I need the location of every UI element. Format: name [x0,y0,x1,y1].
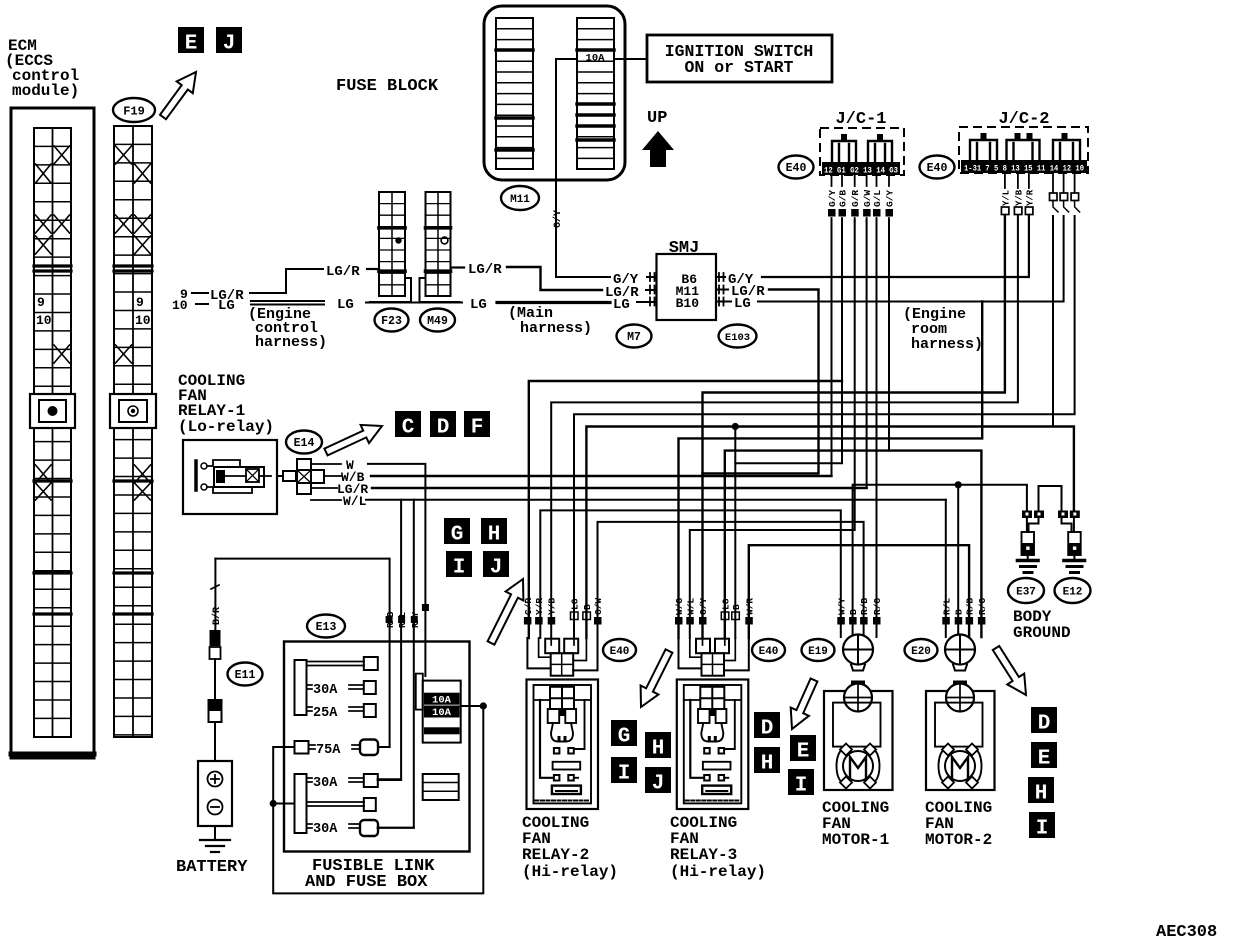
fusible link lower bus bar [295,774,307,833]
cooling fan relay-1 label [178,372,274,436]
svg-text:J/C-1: J/C-1 [835,110,886,129]
connector E19 label [802,639,835,661]
svg-text:G/B: G/B [838,190,849,207]
fusible link plain row [307,798,376,811]
svg-text:F19: F19 [123,104,145,118]
label box H relay-2 [645,732,671,758]
svg-text:UP: UP [647,109,667,128]
label box E right [1031,742,1057,768]
label box H [481,518,507,544]
wire J/C-2 pin1 to relay-3 [703,216,1005,638]
ignition switch box [647,35,832,82]
connector E12 label [1055,578,1091,603]
arrow between relays [641,649,673,707]
svg-text:RELAY-2: RELAY-2 [522,846,589,864]
svg-text:LG/R: LG/R [326,264,360,280]
svg-text:F23: F23 [381,315,402,328]
svg-text:Y/B: Y/B [547,598,558,615]
svg-text:E19: E19 [808,646,828,658]
label box I relay-3 [788,769,814,795]
label box F [464,411,490,437]
label box D relay-3 [754,712,780,738]
svg-text:(Hi-relay): (Hi-relay) [522,863,618,881]
label box E relay-3 [790,735,816,761]
svg-text:B: B [848,609,859,615]
svg-text:B/R: B/R [211,607,223,625]
fuse block right fuse column with 10A fuse [577,18,614,169]
svg-text:(Hi-relay): (Hi-relay) [670,863,766,881]
svg-text:D: D [1038,712,1051,735]
svg-text:module): module) [12,82,79,100]
main harness label [508,305,592,337]
svg-text:harness): harness) [911,336,983,353]
wire 9 LG/R from ECM [180,264,379,304]
connector E14 label [286,431,322,454]
svg-text:FUSE BLOCK: FUSE BLOCK [336,77,439,96]
svg-text:R/G: R/G [872,598,883,615]
svg-text:Y/L: Y/L [1001,190,1011,206]
svg-text:LG: LG [720,598,731,610]
cooling fan relay-3 [677,680,749,810]
wire LG SMJ to J/C-2 [716,216,1064,312]
svg-text:LG: LG [734,296,751,312]
connector E11 label [228,663,263,686]
svg-text:30A: 30A [313,822,338,837]
connector E11 black square [209,630,222,761]
motor-1 connector [843,635,873,671]
body ground E37 connector [1018,511,1045,573]
relay-3 wire labels [674,598,755,625]
body ground label [1013,608,1071,642]
svg-text:G: G [451,523,464,546]
connector E40 label (J/C-1) [779,156,814,179]
svg-text:G/Y: G/Y [552,210,564,228]
svg-text:W/R: W/R [744,598,755,615]
svg-text:ON or START: ON or START [685,58,794,77]
ECM pin strip [30,128,75,737]
svg-text:M11: M11 [510,194,530,206]
label box E [178,27,204,53]
F19 pin strip [110,126,156,737]
connector E20 label [905,639,938,661]
svg-text:E14: E14 [294,437,315,450]
svg-text:9: 9 [136,295,144,310]
svg-text:Y/B: Y/B [1014,189,1024,206]
svg-text:R/B: R/B [965,598,976,615]
svg-text:E: E [1038,747,1051,770]
label box I right [1029,812,1055,838]
junction connector J/C-1 [820,110,904,176]
arrow to E J [160,72,196,119]
connector F19 label [113,98,155,122]
wire J/C-2 pin4 junction [1052,216,1054,427]
fusible link upper bus bar [295,660,307,715]
motor-2 wire labels [941,598,988,625]
svg-text:R/B: R/B [859,598,870,615]
wire LG branch to relay-3 pin1 [679,302,983,639]
relay-2 connector E40 [545,639,578,676]
wire G/Y SMJ to J/C-2 [716,216,1029,288]
svg-text:MOTOR-1: MOTOR-1 [822,831,889,849]
svg-text:Y/R: Y/R [1025,189,1035,206]
svg-text:I: I [453,556,466,579]
svg-text:G/Y: G/Y [613,272,639,288]
arrow to motor-2 labels [993,646,1026,695]
svg-text:W/L: W/L [685,598,696,615]
wire W/B relay-1 to J/C-1 [324,470,832,485]
svg-text:G/W: G/W [593,598,604,615]
svg-text:I: I [1036,817,1049,840]
arrow at E14 [324,425,382,456]
junction connector J/C-2 [959,110,1088,174]
fusible link and fuse box [284,642,470,893]
cooling fan motor-2 [926,681,995,791]
svg-text:LG: LG [470,297,487,313]
label box C [395,411,421,437]
label box J relay-2 [645,767,671,793]
svg-text:E40: E40 [927,162,948,175]
wire G/Y fuse block to SMJ [552,59,657,288]
wire J/C-1 pin6 vertical [888,220,890,451]
connector E40 label (J/C-2) [920,156,955,179]
svg-text:H: H [652,737,665,760]
svg-text:E20: E20 [911,646,931,658]
wire H5 relay-2 to ground E12 [586,427,1074,639]
svg-text:E37: E37 [1016,586,1036,598]
svg-text:GROUND: GROUND [1013,624,1071,642]
svg-text:E12: E12 [1063,586,1083,598]
connector E40 label (relay-3) [752,639,785,661]
ECM label text [5,37,79,100]
svg-text:G/R: G/R [523,598,534,615]
svg-text:12 G1 G2 13 14 G3: 12 G1 G2 13 14 G3 [824,166,898,176]
fusible link 25A [307,704,376,721]
wire J/C-1 pin3 to relay-3 pin2 [690,220,855,638]
svg-text:W/L: W/L [343,494,367,509]
wire motor-2 pin1 vertical [945,500,947,637]
svg-text:F: F [471,416,484,439]
wire motor ground run to E37 [853,481,1027,637]
cooling fan motor-1 label [822,799,889,849]
label box I [446,551,472,577]
svg-text:G/R: G/R [850,190,861,207]
svg-text:G/Y: G/Y [698,598,709,615]
wire J/C-1 pin1 vertical [831,220,833,476]
svg-text:MOTOR-2: MOTOR-2 [925,831,992,849]
relay-2 wire labels [523,598,604,625]
fusible link 30A [307,681,376,698]
svg-text:J: J [490,556,503,579]
svg-text:B: B [731,604,742,610]
label box G relay-2 [611,720,637,746]
label box I relay-2 [611,757,637,783]
connector E40 label (relay-2) [603,639,636,661]
label box D [430,411,456,437]
connector F23 label [375,309,409,332]
svg-text:G: G [618,725,631,748]
svg-text:LG: LG [218,298,235,314]
svg-text:30A: 30A [313,683,338,698]
svg-text:harness): harness) [520,320,592,337]
relay-3 connector E40 [696,639,729,676]
wire relay-3 pin6 to motor-2 pin3 [749,545,969,638]
fusible link 30A lower [307,774,402,791]
cooling fan relay-3 label [670,814,766,881]
svg-text:E103: E103 [725,332,750,344]
cooling fan motor-1 [824,681,893,791]
fusible link row1 [307,657,378,670]
UP arrow [642,109,674,167]
svg-text:Y/R: Y/R [534,598,545,615]
svg-text:H: H [1035,782,1048,805]
wire J/C-1 pin2 to relay-2 and relay-3 [529,220,842,638]
wire J/C-1 pin4 vertical [866,220,868,488]
label box D right [1031,707,1057,733]
wire relay-2 pin6 to motor-1 pin3 [598,522,864,638]
wire W relay-1 [311,458,425,676]
connector strip F23 [370,192,411,302]
svg-text:(Lo-relay): (Lo-relay) [178,418,274,436]
svg-text:RELAY-3: RELAY-3 [670,846,737,864]
connector M49 label [420,309,455,332]
svg-text:10A: 10A [586,53,606,65]
motor-2 connector [945,635,975,671]
wire J/C-2 pin2 to relay-2 [551,216,1018,638]
svg-text:W/G: W/G [674,598,685,615]
fuse box lower spare block [423,774,459,800]
wire 10A output loop [270,702,487,893]
svg-text:AEC308: AEC308 [1156,923,1217,942]
fusible link 75A [295,740,390,759]
svg-text:harness): harness) [255,334,327,351]
svg-text:E: E [797,740,810,763]
connector M7 label [617,325,652,348]
fuse box 10A block [416,674,461,743]
wire J/C-1 pin5 to motor-1 [876,220,878,637]
engine room harness label [903,306,983,353]
svg-text:LG: LG [570,598,581,610]
wire 10A fuse to ignition switch [614,58,647,60]
svg-text:9: 9 [37,295,45,310]
svg-text:E40: E40 [759,646,779,658]
cooling fan relay-2 [527,680,599,810]
svg-text:B10: B10 [676,296,700,311]
wire H7 relay-3 to motor-2 [725,451,982,638]
wire ground bridge [1039,486,1062,511]
svg-text:J: J [223,32,236,55]
body ground E12 connector [1058,511,1085,573]
connector M11 label [501,186,539,210]
wire relay-2 pin2 to motor-1 pin1 [540,510,841,638]
SMJ box [650,239,724,320]
svg-text:1-31 7 5 8 13 15 11 14 12 10: 1-31 7 5 8 13 15 11 14 12 10 [964,164,1084,174]
J/C-2 wire stubs and labels [1001,173,1079,215]
wire LG/R relay-1 to J/C-1 [311,482,867,497]
svg-text:E13: E13 [316,621,337,634]
svg-text:E: E [185,32,198,55]
svg-text:E40: E40 [610,646,630,658]
svg-text:LG: LG [337,297,354,313]
connector E103 label [719,325,757,348]
svg-text:10: 10 [36,313,52,328]
connector E14 cross [277,459,324,494]
svg-text:D: D [437,416,450,439]
svg-text:B: B [954,609,965,615]
svg-text:G/L: G/L [872,190,883,207]
svg-text:M7: M7 [627,331,641,344]
svg-text:R/G: R/G [977,598,988,615]
svg-text:B: B [582,604,593,610]
svg-text:AND FUSE BOX: AND FUSE BOX [305,873,428,892]
connector E13 label [307,615,345,638]
svg-text:M49: M49 [427,315,448,328]
svg-text:LG: LG [613,297,630,313]
svg-text:10A: 10A [432,707,452,719]
svg-text:G/Y: G/Y [885,190,896,207]
motor-1 wire labels [836,598,883,625]
ECM connector outline [11,108,94,758]
svg-text:I: I [618,762,631,785]
svg-text:E40: E40 [786,162,807,175]
svg-text:BATTERY: BATTERY [176,858,248,877]
label box H right [1028,777,1054,803]
wire J/C-2 pin6 to relay-2 pin4 [574,216,1075,638]
cooling fan relay-1 box [183,440,277,514]
label box J [483,551,509,577]
label box J [216,27,242,53]
arrow below J [488,579,524,645]
cooling fan motor-2 label [925,799,992,849]
fuse block outline [484,6,625,180]
relay-2 connector wire wraps [527,638,597,670]
wire LG/R SMJ east [703,284,819,473]
wire 10 LG from ECM [172,297,462,314]
wire LG main harness segment [470,297,657,313]
arrow to E relay-3 [791,679,818,730]
connector strip M49 [420,192,460,302]
svg-text:I: I [795,774,808,797]
J/C-1 wire stubs and labels [827,175,896,222]
svg-text:H: H [761,752,774,775]
wire W/L relay-1 [311,494,946,828]
svg-text:10A: 10A [432,695,452,707]
svg-text:C: C [402,416,415,439]
svg-text:R/L: R/L [941,598,952,615]
svg-text:J: J [652,772,665,795]
svg-text:H: H [488,523,501,546]
svg-text:SMJ: SMJ [669,239,700,258]
svg-text:G/Y: G/Y [827,190,838,207]
fuse block left fuse column [496,18,533,169]
wire battery to fuse box [211,559,390,747]
fuse box wire labels [386,604,429,628]
svg-text:30A: 30A [313,776,338,791]
label box G [444,518,470,544]
relay-3 connector wire wraps [679,638,749,670]
label box H relay-3 [754,747,780,773]
svg-text:75A: 75A [316,743,341,758]
svg-text:W/Y: W/Y [836,598,847,615]
svg-text:25A: 25A [313,706,338,721]
svg-text:D: D [761,717,774,740]
cooling fan relay-2 label [522,814,618,881]
svg-text:10: 10 [135,313,151,328]
wire LG/R main harness segment [452,262,657,301]
battery [176,761,248,877]
fusible link 30A bottom [307,820,414,837]
engine control harness label [248,306,327,351]
svg-text:10: 10 [172,298,188,313]
svg-text:LG/R: LG/R [468,262,502,278]
connector E37 label [1008,578,1044,603]
svg-text:E11: E11 [235,669,256,682]
